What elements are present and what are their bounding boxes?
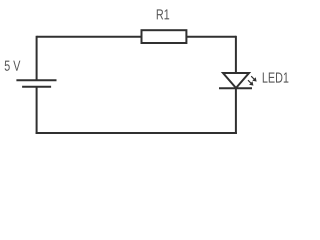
LED D1 light arrow upper	[251, 76, 256, 81]
LED D1 triangle	[223, 73, 249, 88]
resistor R1 label	[157, 9, 169, 19]
LED D1 light arrow lower	[248, 80, 253, 85]
battery V1 plate long	[16, 79, 56, 81]
LED D1 label	[263, 73, 289, 83]
wire left upper	[36, 36, 38, 80]
wire right lower	[235, 88, 237, 134]
wire bottom	[36, 132, 237, 134]
resistor R1	[142, 30, 187, 43]
wire left lower	[36, 87, 38, 134]
wire top	[37, 36, 236, 38]
LED D1 cathode bar	[219, 87, 252, 89]
wire right upper	[235, 36, 237, 73]
battery V1 plate short	[22, 86, 51, 88]
battery value label 5 V	[5, 61, 21, 71]
